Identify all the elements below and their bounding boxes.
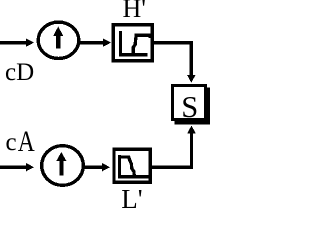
svg-text:A: A	[18, 125, 35, 158]
svg-text:H': H'	[123, 0, 146, 23]
svg-text:cD: cD	[5, 59, 34, 86]
svg-text:S: S	[181, 89, 198, 124]
svg-text:c: c	[6, 129, 17, 156]
svg-text:L': L'	[121, 184, 142, 210]
